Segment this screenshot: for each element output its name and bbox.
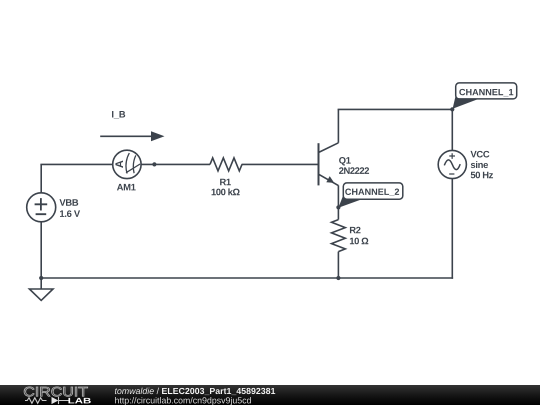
wire VBB top lead: [40, 164, 42, 192]
transistor Q1 part number 2N2222: [339, 167, 369, 174]
voltage source VCC label: [470, 151, 489, 158]
resistor R2 value 10 Ω: [350, 238, 368, 245]
resistor R2 label: [350, 227, 361, 234]
junction node emitter / CHANNEL_2: [336, 205, 340, 209]
current direction arrow: [100, 131, 164, 141]
wire Q1 emitter to R2: [337, 185, 339, 219]
transistor Q1 collector stroke: [319, 143, 339, 153]
voltage source VBB: [27, 193, 56, 222]
junction node ground: [39, 276, 43, 280]
wire VBB bottom lead: [40, 222, 42, 278]
voltage source VBB label: [59, 199, 78, 205]
wire Q1 collector lead: [337, 109, 339, 142]
logo resistor-diode glyph: [25, 397, 69, 404]
ammeter AM1: [113, 150, 141, 178]
transistor Q1 emitter arrow: [326, 176, 334, 183]
node flag tail CHANNEL_2: [338, 195, 360, 208]
logo CIRCUIT wordmark: [24, 387, 88, 396]
footer circuit url text: [115, 397, 251, 405]
wire bottom rail: [40, 277, 453, 279]
junction node CHANNEL_1: [450, 107, 454, 111]
wire R1 to Q1 base: [242, 163, 319, 165]
wire VCC top lead: [451, 109, 453, 150]
node flag CHANNEL_1: [456, 83, 517, 99]
transistor Q1 base bar: [318, 143, 320, 185]
ground: [29, 289, 53, 300]
transistor Q1 label: [339, 157, 351, 165]
voltage source VCC: [438, 150, 466, 178]
footer title ELEC2003_Part1_45892381: [162, 388, 275, 395]
resistor R2: [332, 220, 346, 252]
footer separator: [157, 388, 159, 394]
wire R2 bottom lead: [337, 252, 339, 278]
voltage source VCC type sine: [471, 161, 488, 168]
wire VCC bottom lead: [451, 179, 453, 279]
junction node R2 bottom: [336, 276, 340, 280]
resistor R1 label: [220, 179, 231, 185]
voltage source VCC frequency 50 Hz: [471, 172, 493, 179]
wire ground stem: [40, 278, 42, 289]
footer bar: [0, 385, 540, 405]
junction node after AM1: [152, 162, 156, 166]
voltage source VBB value 1.6 V: [60, 210, 80, 217]
resistor R1 value 100 kΩ: [212, 188, 240, 195]
wire top rail: [338, 108, 453, 110]
footer author tomwaldie: [115, 388, 154, 394]
current label I_B: [112, 111, 125, 119]
ammeter AM1 label: [117, 184, 136, 190]
transistor Q1 emitter stroke: [319, 174, 339, 185]
node flag CHANNEL_2: [343, 183, 403, 199]
logo LAB wordmark: [68, 398, 90, 404]
wire VBB to R1 horizontal: [40, 163, 210, 165]
resistor R1: [210, 158, 242, 171]
node flag tail CHANNEL_1: [453, 95, 477, 109]
